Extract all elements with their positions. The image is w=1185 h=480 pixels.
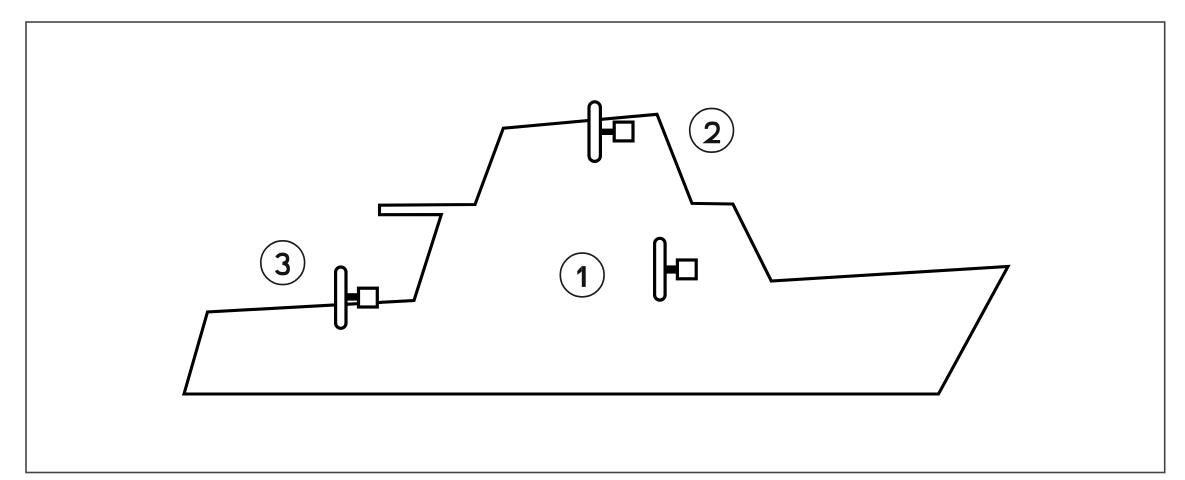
transducer 2 stub xyxy=(601,129,615,135)
label circle 2 xyxy=(690,108,734,152)
label circle 1 xyxy=(560,253,604,297)
ship hull outline xyxy=(184,114,1008,394)
transducer 1 stub xyxy=(665,265,680,273)
transducer 3 square xyxy=(359,288,378,307)
transducer 1 square xyxy=(677,260,696,279)
transducer 1 capsule xyxy=(655,238,666,300)
label text 3 xyxy=(276,254,288,273)
label text 2 xyxy=(706,123,720,141)
transducer 2 square xyxy=(614,122,633,141)
transducer 3 capsule xyxy=(336,267,346,328)
transducer 2 capsule xyxy=(589,102,600,162)
label circle 3 xyxy=(261,241,305,285)
label text 1 xyxy=(577,266,585,287)
transducer 3 stub xyxy=(346,293,360,300)
